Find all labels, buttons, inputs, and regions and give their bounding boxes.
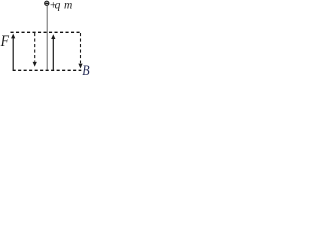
field line up arrow (right-middle) [52, 37, 54, 70]
svg-text:F: F [0, 33, 10, 50]
physics diagram: charged ball +q m falling into dashed field region [0, 0, 90, 75]
arrow down on right edge [78, 64, 82, 69]
charged ball +q [45, 1, 49, 5]
svg-text:B: B [82, 62, 89, 75]
field line F (up arrow, left) [12, 36, 14, 70]
wire: trajectory line of ball [46, 5, 48, 69]
ball core dot [45, 3, 48, 5]
node: dashed region top edge [11, 31, 81, 33]
node: dashed region right edge [80, 33, 82, 63]
node: dashed region bottom edge [13, 69, 82, 71]
svg-text:m: m [64, 0, 72, 11]
svg-text:q: q [55, 0, 61, 11]
dashed down field line (left-middle) [34, 33, 36, 62]
